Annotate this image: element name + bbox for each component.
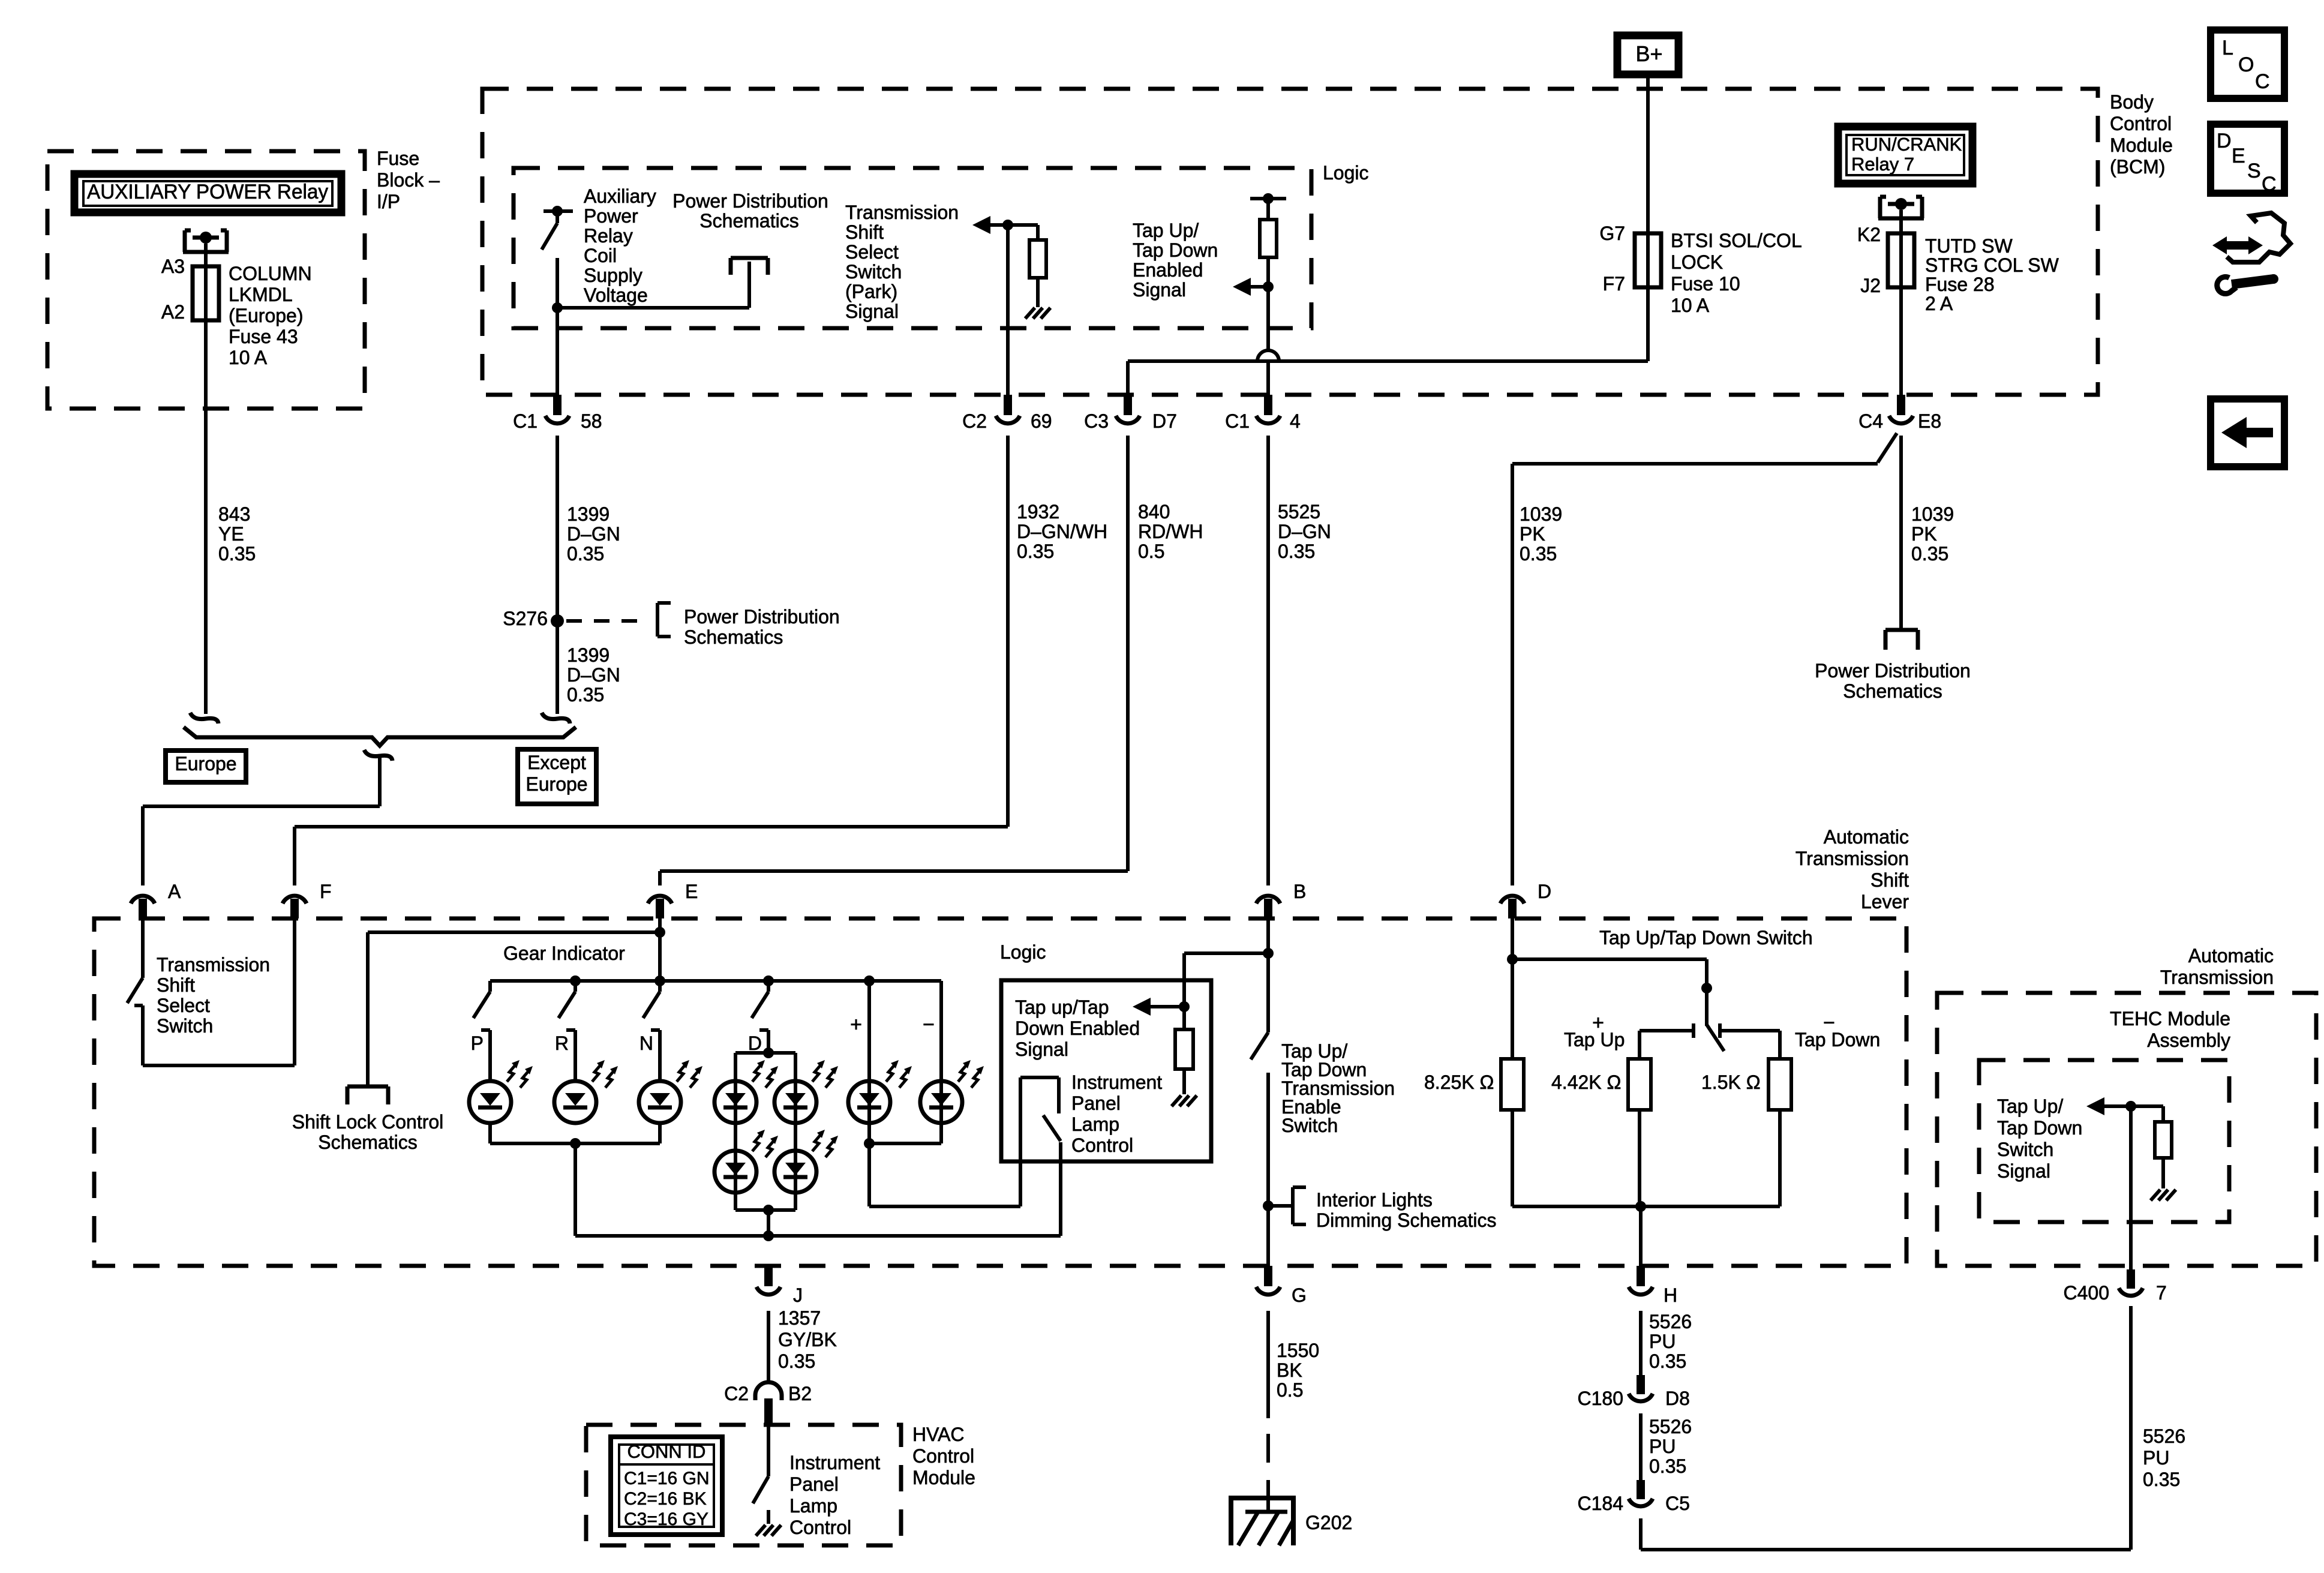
LED D2 [774, 1081, 816, 1123]
svg-text:Interior Lights: Interior Lights [1316, 1189, 1433, 1211]
svg-text:Logic: Logic [1323, 162, 1369, 184]
wire lamp control out [1059, 1142, 1062, 1236]
svg-text:5526: 5526 [1649, 1311, 1692, 1332]
svg-text:Transmission: Transmission [2160, 966, 2274, 988]
wire merged to A [378, 757, 382, 806]
wire N LED [658, 1030, 662, 1081]
wire 4.42K top [1638, 1031, 1641, 1059]
svg-text:BK: BK [1277, 1359, 1302, 1381]
svg-text:5526: 5526 [1649, 1416, 1692, 1437]
svg-text:BTSI SOL/COL: BTSI SOL/COL [1671, 230, 1802, 251]
svg-text:PU: PU [2143, 1447, 2169, 1469]
wire D pair to bus [767, 1210, 770, 1236]
label Except Europe box [518, 749, 596, 804]
wire TEHC down [2129, 1106, 2133, 1269]
svg-text:C4: C4 [1858, 410, 1883, 432]
svg-text:C: C [2262, 173, 2277, 196]
svg-text:(Europe): (Europe) [229, 305, 304, 326]
svg-text:1932: 1932 [1017, 501, 1059, 523]
resistor 8.25K [1501, 1059, 1524, 1110]
wire 840 horizontal [1128, 359, 1648, 363]
wire PRN bottom rail [488, 1123, 492, 1143]
wire 1550 BK [1266, 1311, 1270, 1418]
svg-text:Fuse 10: Fuse 10 [1671, 273, 1740, 295]
svg-text:D8: D8 [1665, 1388, 1690, 1409]
wire logic resistor to ground [1182, 1069, 1186, 1094]
svg-text:5526: 5526 [2143, 1425, 2185, 1447]
svg-text:Relay: Relay [584, 225, 633, 247]
wire hop 5525 over 840 [1257, 350, 1279, 361]
wire 5526 PU 2 [1639, 1413, 1643, 1480]
svg-text:0.35: 0.35 [1520, 543, 1557, 565]
svg-text:F7: F7 [1603, 273, 1625, 295]
icon back arrow box [2211, 399, 2284, 467]
svg-text:Switch: Switch [845, 261, 902, 283]
junction interior lights [1263, 1200, 1274, 1211]
connector J [764, 1266, 773, 1286]
svg-text:C2: C2 [962, 410, 987, 432]
off-page fork power distribution 1039 [1885, 628, 1918, 632]
svg-text:Schematics: Schematics [1843, 680, 1942, 702]
svg-text:1039: 1039 [1911, 503, 1954, 525]
svg-text:G202: G202 [1305, 1512, 1352, 1533]
svg-text:Except: Except [527, 752, 586, 773]
svg-text:Transmission: Transmission [845, 202, 959, 223]
wire 1399 upper [556, 436, 559, 621]
wire 1932 route [1006, 436, 1010, 827]
gear switch R [570, 975, 581, 986]
svg-text:N: N [639, 1032, 653, 1054]
svg-text:PK: PK [1520, 523, 1545, 545]
wire R LED [574, 1030, 577, 1081]
svg-text:Tap Down: Tap Down [1795, 1029, 1880, 1050]
connector C400-7 [2127, 1269, 2135, 1289]
LED P [469, 1081, 511, 1123]
svg-text:A: A [168, 881, 181, 902]
connector A shift lever [131, 896, 155, 903]
wire TEHC to resistor [2131, 1104, 2163, 1108]
LED R [554, 1081, 596, 1123]
AUXILIARY POWER Relay box [74, 174, 341, 212]
svg-text:C1=16 GN: C1=16 GN [624, 1469, 710, 1488]
plus minus bottom rail [869, 1142, 941, 1145]
ground BCM park signal [1025, 308, 1035, 319]
wire D right branch [794, 1053, 797, 1210]
svg-text:0.35: 0.35 [1017, 541, 1054, 562]
svg-text:Tap Up/Tap Down Switch: Tap Up/Tap Down Switch [1599, 927, 1813, 948]
arrow tap enabled signal [1148, 1005, 1184, 1008]
wire B down [1266, 918, 1270, 1032]
svg-text:Control: Control [1071, 1134, 1133, 1156]
svg-text:E: E [685, 881, 698, 902]
svg-text:0.35: 0.35 [1911, 543, 1948, 565]
wire 1399 lower [556, 621, 559, 714]
fuse 43 COLUMN LKMDL [193, 266, 219, 320]
wire D junction right [1511, 918, 1514, 959]
BCM dashed box [482, 89, 2098, 395]
svg-text:K2: K2 [1857, 224, 1881, 245]
connector C1-58 [553, 395, 562, 415]
svg-text:Power Distribution: Power Distribution [672, 190, 828, 212]
wire A down [141, 918, 145, 978]
switch contact aux relay coil [544, 209, 573, 213]
gear indicator bus [490, 979, 941, 983]
svg-text:Supply: Supply [584, 265, 642, 286]
dashed ref wire S276 [566, 619, 649, 623]
ground G202 [1266, 1480, 1270, 1512]
connector C2-B2 [755, 1382, 782, 1400]
svg-text:TEHC Module: TEHC Module [2110, 1008, 2230, 1029]
svg-text:Block –: Block – [377, 169, 440, 191]
svg-text:Down Enabled: Down Enabled [1015, 1017, 1140, 1039]
D pair top rail [735, 1051, 795, 1055]
svg-text:TUTD SW: TUTD SW [1925, 235, 2013, 257]
LED plus [848, 1081, 890, 1123]
resistor tap enable [1260, 220, 1277, 257]
wire shift select lower [134, 1004, 143, 1007]
svg-text:D–GN: D–GN [567, 523, 620, 545]
connector C180-D8 [1637, 1375, 1645, 1394]
svg-text:Signal: Signal [1133, 279, 1186, 301]
switch blade tap up/down [1707, 1025, 1724, 1051]
junction tap switch [1701, 983, 1712, 993]
switch blade shift select [127, 978, 143, 1003]
wire to interior lights bracket [1268, 1204, 1293, 1208]
svg-text:Automatic: Automatic [2188, 945, 2274, 966]
label Europe box [166, 751, 246, 782]
svg-text:1.5K Ω: 1.5K Ω [1701, 1071, 1761, 1093]
svg-text:0.35: 0.35 [2143, 1469, 2180, 1490]
wire plus column [867, 981, 871, 1143]
arrow TEHC signal [2102, 1104, 2131, 1108]
connector D shift lever [1500, 896, 1524, 903]
svg-text:Gear Indicator: Gear Indicator [503, 942, 625, 964]
svg-text:Panel: Panel [1071, 1092, 1121, 1114]
junction park signal [1002, 220, 1013, 230]
svg-text:STRG COL SW: STRG COL SW [1925, 254, 2059, 276]
Logic box shift lever [1001, 980, 1211, 1161]
B+ battery box [1617, 35, 1679, 74]
fuse 10 BTSI [1635, 233, 1661, 287]
icon LOC box [2211, 30, 2284, 98]
wire 4.42K bottom [1638, 1110, 1641, 1206]
wire to shift lock fork [368, 930, 660, 934]
svg-text:Control: Control [912, 1445, 974, 1467]
svg-text:8.25K Ω: 8.25K Ω [1424, 1071, 1494, 1093]
svg-text:1357: 1357 [778, 1307, 821, 1329]
svg-text:Automatic: Automatic [1824, 826, 1909, 848]
wire 8.25K top [1511, 959, 1514, 1059]
svg-text:C400: C400 [2064, 1282, 2110, 1304]
contact tap up [1692, 1023, 1695, 1038]
wire 840 route [1126, 436, 1130, 871]
BCM internal logic dashed box [514, 168, 1311, 328]
resistor TEHC [2155, 1122, 2172, 1158]
tap switch bottom bus [1512, 1205, 1780, 1208]
resistor 1.5K [1768, 1059, 1791, 1110]
RUN/CRANK Relay 7 box [1838, 127, 1972, 184]
svg-text:Shift Lock Control: Shift Lock Control [292, 1111, 444, 1133]
wire C184 to TEHC [1639, 1518, 1643, 1550]
svg-text:4.42K Ω: 4.42K Ω [1551, 1071, 1621, 1093]
wire resistor to ground [1036, 278, 1040, 307]
svg-text:Assembly: Assembly [2147, 1029, 2230, 1051]
svg-text:PU: PU [1649, 1331, 1676, 1352]
svg-text:Shift: Shift [157, 974, 195, 996]
wire bar to resistor [1266, 199, 1270, 220]
splice S276 [551, 614, 564, 628]
gear switch N [654, 975, 665, 986]
svg-text:69: 69 [1031, 410, 1052, 432]
svg-text:D: D [1538, 881, 1551, 902]
wire J to C2B2 [767, 1311, 770, 1382]
svg-text:E: E [2232, 145, 2245, 167]
svg-text:0.5: 0.5 [1138, 541, 1164, 562]
svg-text:Logic: Logic [1000, 941, 1046, 963]
svg-text:10 A: 10 A [229, 347, 268, 368]
wire 1039 to fork [1899, 436, 1903, 630]
svg-text:Module: Module [2110, 134, 2173, 156]
svg-text:Signal: Signal [1997, 1160, 2050, 1182]
gear bottom bus [575, 1234, 1061, 1238]
svg-text:4: 4 [1290, 410, 1301, 432]
svg-text:GY/BK: GY/BK [778, 1329, 837, 1350]
svg-text:G7: G7 [1599, 223, 1625, 244]
LED minus [920, 1081, 962, 1123]
hook below brace [364, 750, 392, 761]
connector H [1637, 1266, 1645, 1286]
svg-text:A2: A2 [161, 301, 185, 323]
wire R to bottom bus [574, 1143, 577, 1236]
bracket interior lights [1291, 1187, 1295, 1224]
svg-text:G: G [1292, 1284, 1307, 1306]
icon DESC box [2211, 124, 2284, 193]
svg-text:0.35: 0.35 [567, 543, 604, 565]
HVAC control module dashed box [586, 1425, 901, 1545]
svg-text:L: L [2222, 37, 2233, 59]
switch blade HVAC lamp [753, 1476, 768, 1503]
junction plus feed [864, 975, 875, 986]
off-page fork power distribution [731, 256, 768, 260]
svg-text:LKMDL: LKMDL [229, 284, 293, 305]
svg-text:H: H [1664, 1284, 1677, 1306]
svg-text:D7: D7 [1152, 410, 1177, 432]
svg-text:Fuse 43: Fuse 43 [229, 326, 298, 347]
svg-text:Transmission: Transmission [157, 954, 270, 975]
switch blade lamp control [1043, 1115, 1061, 1141]
junction TEHC [2125, 1101, 2136, 1112]
svg-text:Control: Control [789, 1517, 851, 1538]
icon wrench arrow [2212, 236, 2227, 254]
svg-text:F: F [320, 881, 332, 902]
merge brace Europe options [184, 727, 576, 746]
svg-text:J: J [793, 1284, 803, 1306]
svg-text:1550: 1550 [1277, 1340, 1319, 1361]
arrow tap enable [1248, 285, 1268, 289]
svg-text:C180: C180 [1578, 1388, 1624, 1409]
svg-text:Instrument: Instrument [789, 1452, 880, 1473]
svg-text:Schematics: Schematics [684, 626, 783, 648]
svg-text:D: D [2217, 130, 2232, 152]
gear switch D [763, 975, 774, 986]
connector G [1264, 1266, 1272, 1286]
svg-text:10 A: 10 A [1671, 295, 1710, 316]
ground TEHC [2151, 1190, 2160, 1200]
svg-text:CONN ID: CONN ID [627, 1441, 706, 1462]
connector C184-C5 [1637, 1480, 1645, 1499]
svg-text:Tap Down: Tap Down [1133, 239, 1218, 261]
bracket power distribution ref [656, 603, 659, 637]
svg-text:C1: C1 [1225, 410, 1250, 432]
svg-text:Fuse: Fuse [377, 148, 419, 169]
svg-text:Select: Select [157, 995, 210, 1016]
wire 8.25K bottom [1511, 1110, 1514, 1206]
wire B+ to fuse10 [1646, 74, 1650, 361]
connector F shift lever [283, 896, 307, 903]
svg-text:C184: C184 [1578, 1493, 1624, 1514]
svg-text:Tap Up/: Tap Up/ [1997, 1095, 2063, 1117]
svg-text:0.35: 0.35 [1649, 1455, 1686, 1477]
wire relay to fuse43 [204, 244, 208, 336]
svg-text:Switch: Switch [1281, 1115, 1338, 1136]
D pair bottom rail [735, 1208, 795, 1212]
LED D4 [774, 1151, 816, 1193]
svg-text:Relay 7: Relay 7 [1851, 154, 1914, 175]
svg-text:Tap up/Tap: Tap up/Tap [1015, 996, 1109, 1018]
svg-text:(BCM): (BCM) [2110, 156, 2165, 178]
svg-text:Schematics: Schematics [318, 1131, 417, 1153]
svg-text:1399: 1399 [567, 503, 609, 525]
svg-text:J2: J2 [1860, 275, 1881, 296]
svg-text:Tap Up: Tap Up [1564, 1029, 1625, 1050]
wire C2 branch down [1006, 225, 1010, 395]
svg-text:Schematics: Schematics [699, 210, 798, 232]
svg-text:2 A: 2 A [1925, 293, 1953, 314]
wire logic dot to resistor [1182, 1007, 1186, 1029]
svg-text:RUN/CRANK: RUN/CRANK [1851, 134, 1962, 155]
svg-text:Tap Down: Tap Down [1997, 1117, 2082, 1139]
svg-text:Auxiliary: Auxiliary [584, 185, 656, 207]
wire coil supply down [556, 258, 559, 395]
fuse 28 TUTD [1888, 233, 1914, 287]
connector C4-E8 [1897, 395, 1905, 415]
fuse block I/P dashed box [47, 151, 365, 409]
relay terminal AUXILIARY POWER [183, 230, 187, 252]
svg-text:Lever: Lever [1861, 891, 1909, 912]
arrow park signal [988, 223, 1008, 227]
CONN ID table [611, 1437, 722, 1535]
svg-text:Instrument: Instrument [1071, 1071, 1162, 1093]
wire B junction to arrow [1184, 951, 1268, 955]
svg-text:COLUMN: COLUMN [229, 263, 312, 284]
ground logic box [1172, 1095, 1181, 1106]
TEHC module dashed box [1979, 1060, 2229, 1222]
svg-text:C: C [2255, 70, 2270, 93]
contact tap down [1718, 1023, 1722, 1038]
svg-text:LOCK: LOCK [1671, 251, 1723, 273]
svg-text:0.35: 0.35 [218, 543, 256, 565]
wire end hook Except Europe [542, 713, 570, 724]
switch blade tap enable [1251, 1032, 1268, 1059]
switch blade aux relay coil [556, 211, 559, 223]
gear switch P [488, 981, 492, 992]
svg-text:RD/WH: RD/WH [1138, 521, 1203, 542]
resistor 4.42K [1628, 1059, 1651, 1110]
svg-text:Switch: Switch [157, 1015, 213, 1037]
wire TEHC resistor to ground [2161, 1158, 2165, 1188]
connector C2-69 [1004, 395, 1012, 415]
svg-text:D–GN: D–GN [567, 664, 620, 686]
off-page fork shift lock [347, 1085, 388, 1089]
svg-text:1399: 1399 [567, 644, 609, 666]
shift lever dashed box [94, 918, 1906, 1266]
junction shift lock [654, 927, 665, 938]
wire P LED [488, 1030, 492, 1081]
svg-text:P: P [471, 1032, 484, 1054]
svg-text:−: − [923, 1013, 935, 1036]
svg-text:Enabled: Enabled [1133, 259, 1203, 281]
svg-text:Lamp: Lamp [1071, 1113, 1119, 1135]
svg-text:Switch: Switch [1997, 1139, 2053, 1160]
svg-text:Select: Select [845, 241, 899, 263]
svg-text:Power: Power [584, 205, 638, 227]
svg-text:Panel: Panel [789, 1473, 839, 1495]
wire H feed [1639, 1206, 1643, 1266]
resistor tap enabled logic [1175, 1029, 1193, 1069]
wire LED return [867, 1143, 871, 1206]
ground HVAC [756, 1525, 765, 1536]
wire HVAC contact [767, 1510, 770, 1524]
LED D3 [714, 1151, 756, 1193]
svg-text:C2=16 BK: C2=16 BK [624, 1489, 707, 1509]
svg-text:O: O [2238, 53, 2254, 76]
svg-text:Fuse 28: Fuse 28 [1925, 274, 1995, 295]
svg-text:58: 58 [581, 410, 602, 432]
svg-text:+: + [850, 1013, 862, 1036]
svg-text:Tap Up/: Tap Up/ [1133, 220, 1199, 241]
svg-text:PU: PU [1649, 1436, 1676, 1457]
svg-text:Power Distribution: Power Distribution [1815, 660, 1971, 682]
svg-text:Lamp: Lamp [789, 1495, 837, 1517]
wire minus column [939, 981, 943, 1143]
svg-text:0.35: 0.35 [567, 684, 604, 706]
svg-text:R: R [555, 1032, 569, 1054]
svg-text:0.35: 0.35 [1278, 541, 1315, 562]
svg-text:D–GN/WH: D–GN/WH [1017, 521, 1107, 542]
svg-text:Europe: Europe [526, 773, 587, 795]
connector C1-4 [1264, 395, 1272, 415]
wire park signal to resistor [1008, 223, 1038, 227]
svg-text:S276: S276 [503, 608, 548, 629]
wire relay to fuse28 [1899, 210, 1903, 395]
svg-text:Europe: Europe [175, 753, 236, 775]
svg-text:B+: B+ [1635, 41, 1662, 66]
svg-text:Power Distribution: Power Distribution [684, 606, 840, 628]
svg-text:HVAC: HVAC [912, 1424, 965, 1445]
svg-text:Shift: Shift [1870, 869, 1909, 891]
wire 5526 PU 1 [1639, 1311, 1643, 1375]
wire end hook Europe [190, 713, 218, 724]
connector B shift lever [1256, 896, 1280, 903]
svg-text:C2: C2 [724, 1383, 749, 1404]
svg-text:5525: 5525 [1278, 501, 1320, 523]
svg-text:PK: PK [1911, 523, 1937, 545]
junction coil supply [552, 302, 563, 313]
svg-text:1039: 1039 [1520, 503, 1562, 525]
svg-text:Control: Control [2110, 113, 2172, 134]
connector C3-D7 [1124, 395, 1132, 415]
wire to power distribution fork [557, 306, 749, 310]
